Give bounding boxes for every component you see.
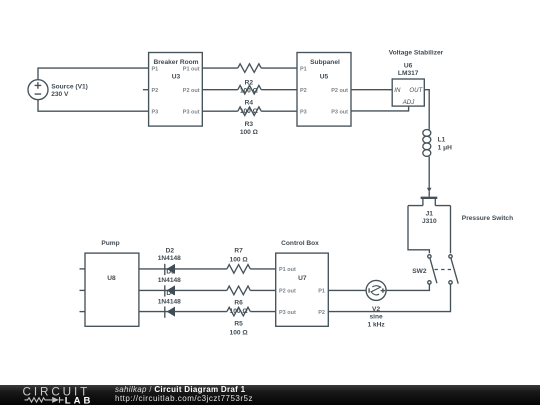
svg-text:IN: IN — [394, 87, 401, 94]
svg-text:Pump: Pump — [101, 240, 119, 247]
svg-text:P3 out: P3 out — [183, 110, 200, 116]
svg-text:SW2: SW2 — [412, 268, 427, 275]
resistor R7 — [227, 247, 250, 273]
wire R2 to U5 P1 — [261, 67, 297, 69]
wire V2 to U7 P1 — [328, 289, 366, 291]
wire R3 to U5 P3 — [261, 110, 297, 112]
wire J1 right leg to SW2 — [450, 206, 452, 254]
svg-text:Pressure Switch: Pressure Switch — [462, 215, 513, 222]
svg-text:J1: J1 — [426, 210, 434, 217]
svg-text:R7: R7 — [234, 247, 243, 254]
svg-text:L1: L1 — [438, 137, 446, 144]
svg-text:ADJ: ADJ — [402, 99, 415, 106]
wire J1 left leg to SW2 — [408, 206, 429, 254]
voltage regulator U6 LM317 — [392, 62, 424, 106]
wire U3 P1out to R2 — [202, 67, 238, 69]
svg-text:R3: R3 — [245, 121, 254, 128]
svg-text:P2: P2 — [318, 310, 325, 316]
svg-text:Voltage Stabilizer: Voltage Stabilizer — [389, 50, 444, 57]
diode D2 — [158, 247, 181, 275]
svg-text:P1: P1 — [318, 289, 325, 295]
svg-text:P3: P3 — [152, 110, 159, 116]
svg-text:D2: D2 — [166, 247, 175, 254]
svg-text:P3 out: P3 out — [331, 110, 348, 116]
wire L1 to J1 gate with arrow — [427, 157, 432, 197]
svg-text:Subpanel: Subpanel — [310, 59, 340, 66]
wire U3 P2out to R4 — [202, 89, 238, 91]
svg-text:Source (V1): Source (V1) — [51, 84, 88, 91]
svg-text:Breaker Room: Breaker Room — [153, 59, 198, 66]
svg-text:P1: P1 — [152, 66, 159, 72]
svg-text:1 μH: 1 μH — [438, 145, 453, 152]
svg-text:P2: P2 — [300, 88, 307, 94]
svg-text:P2: P2 — [152, 88, 159, 94]
diode D4 — [158, 290, 181, 318]
resistor R2 — [238, 64, 261, 95]
source V1 — [28, 80, 88, 100]
svg-text:1N4148: 1N4148 — [158, 277, 181, 284]
wire U6 OUT to L1 — [424, 90, 429, 130]
breaker room box U3 — [149, 53, 203, 127]
svg-text:sahilkap / Circuit Diagram Dra: sahilkap / Circuit Diagram Draf 1 — [115, 385, 246, 394]
svg-text:1N4148: 1N4148 — [158, 255, 181, 262]
wire SW2 right bottom to U7 P2 — [328, 284, 450, 312]
wire stub pump pin 1 — [80, 268, 86, 270]
wire diode row B to R6 — [139, 289, 227, 291]
svg-text:P2 out: P2 out — [331, 88, 348, 94]
svg-text:Control Box: Control Box — [281, 240, 319, 247]
svg-text:1 kHz: 1 kHz — [367, 322, 385, 329]
wire U7 P3out to R5 — [250, 311, 275, 313]
svg-text:P3: P3 — [300, 110, 307, 116]
svg-text:U6: U6 — [404, 62, 413, 69]
inductor L1 — [423, 130, 452, 157]
wire stub U3 P2 — [143, 89, 149, 91]
svg-text:U3: U3 — [172, 74, 181, 81]
svg-text:U8: U8 — [107, 275, 116, 282]
svg-text:P3 out: P3 out — [279, 310, 296, 316]
svg-text:LAB: LAB — [65, 395, 94, 405]
subpanel box U5 — [297, 53, 351, 127]
svg-text:OUT: OUT — [409, 87, 423, 94]
svg-text:R4: R4 — [245, 100, 254, 107]
wire U3 P3out to R3 — [202, 110, 238, 112]
wire U7 P1out to R7 — [250, 268, 275, 270]
wire U7 P2out to R6 — [250, 289, 275, 291]
wire stub pump pin 2 — [80, 289, 86, 291]
resistor R6 — [227, 286, 250, 315]
svg-text:230 V: 230 V — [51, 91, 69, 98]
svg-text:100 Ω: 100 Ω — [240, 129, 259, 136]
svg-text:U7: U7 — [298, 275, 307, 282]
svg-text:J310: J310 — [422, 218, 437, 225]
control box U7 — [276, 253, 329, 326]
svg-text:100 Ω: 100 Ω — [230, 256, 249, 263]
logo schematic row — [25, 397, 64, 403]
svg-text:P1 out: P1 out — [279, 267, 296, 273]
svg-text:R5: R5 — [234, 320, 243, 327]
wire diode row A to R7 — [139, 268, 227, 270]
resistor R4 — [238, 85, 261, 115]
resistor R3 — [238, 107, 261, 136]
svg-text:1N4148: 1N4148 — [158, 299, 181, 306]
svg-text:sine: sine — [369, 314, 383, 321]
svg-text:P2 out: P2 out — [183, 88, 200, 94]
svg-text:R6: R6 — [234, 300, 243, 307]
wire U5 P2out to U6 IN — [351, 89, 392, 91]
wire V1 bottom to U3 P3 — [38, 99, 149, 111]
wire U5 P3out to U6 ADJ — [351, 106, 409, 111]
svg-text:LM317: LM317 — [398, 70, 419, 77]
wire V1 top to U3 P1 — [38, 68, 149, 80]
switch SW2 — [412, 255, 458, 284]
wire stub pump pin 3 — [80, 311, 86, 313]
wire R4 to U5 P2 — [261, 89, 297, 91]
svg-text:P1 out: P1 out — [183, 66, 200, 72]
source V2 — [366, 280, 386, 328]
transistor J1 J310 — [408, 198, 451, 225]
diode D3 — [158, 268, 181, 296]
wire SW2 left bottom to V2 — [386, 284, 430, 290]
svg-text:P1: P1 — [300, 66, 307, 72]
svg-text:P2 out: P2 out — [279, 289, 296, 295]
svg-text:U5: U5 — [320, 74, 329, 81]
svg-text:http://circuitlab.com/c3jczt77: http://circuitlab.com/c3jczt7753r5z — [115, 394, 253, 403]
wire diode row C to R5 — [139, 311, 227, 313]
footer bar — [0, 385, 540, 405]
svg-text:100 Ω: 100 Ω — [230, 330, 249, 337]
pump box U8 — [85, 253, 139, 326]
resistor R5 — [227, 307, 250, 336]
